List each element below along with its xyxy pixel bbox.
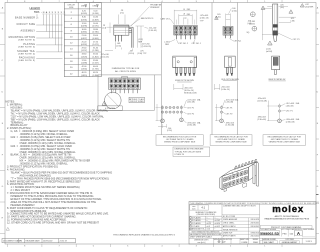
svg-text:.400±.004: .400±.004: [184, 87, 192, 89]
svg-text:(1.55): (1.55): [116, 46, 121, 48]
svg-text:.0000050 (0.127µ) MIN. SELECT: .0000050 (0.127µ) MIN. SELECT MATTE TIN: [20, 148, 71, 151]
svg-text:.100: .100: [232, 8, 236, 10]
svg-text:3. PRODUCT SPECIFICATION: PS-5: 3. PRODUCT SPECIFICATION: PS-5566-001: [7, 166, 59, 169]
svg-text:5566002-SD: 5566002-SD: [260, 232, 280, 236]
disclaimer strip: [189, 203, 316, 205]
svg-text:(.64): (.64): [248, 23, 252, 25]
svg-text:(11.94±.08): (11.94±.08): [257, 100, 267, 102]
svg-text:.017±.003: .017±.003: [286, 103, 294, 105]
svg-text:(2.54): (2.54): [232, 10, 237, 12]
svg-text:AREA OF THE PIN AND WILL NOT A: AREA OF THE PIN AND WILL NOT AFFECT THE …: [11, 201, 97, 204]
detail front view: [109, 78, 141, 89]
svg-text:BLANK, S, MX = .0000060 (0.1: BLANK, S, MX = .0000060 (0.152µ) MIN. MA…: [11, 154, 72, 157]
svg-text:.079±.005: .079±.005: [200, 15, 208, 17]
svg-text:2 = PEG MOUNT: 2 = PEG MOUNT: [11, 189, 31, 192]
product customer drawing bar: [260, 226, 312, 229]
svg-text:SPECIFICATION PS-45499-002: SPECIFICATION PS-45499-002: [11, 210, 47, 213]
svg-text:6. MOUNTING OPTION:: 6. MOUNTING OPTION:: [7, 183, 35, 186]
svg-text:TERMINAL:: TERMINAL:: [11, 121, 25, 124]
svg-text:48.20: 48.20: [93, 72, 98, 74]
hole layout left connect lines: [162, 105, 164, 123]
svg-text:2019/02/22: 2019/02/22: [43, 241, 52, 243]
svg-text:BASE NUMBER: BASE NUMBER: [15, 16, 35, 19]
svg-text:44.00: 44.00: [93, 66, 98, 68]
detail pins below: [111, 89, 113, 93]
svg-text:P1: P1: [20, 241, 22, 243]
svg-text:(2.36±.08): (2.36±.08): [257, 119, 266, 121]
svg-text:(2.36±.08): (2.36±.08): [286, 121, 295, 123]
circuit size table: [64, 3, 101, 77]
svg-text:.437: .437: [129, 50, 133, 52]
svg-text:MX = .0000060 (0.152µ) MIN.: MX = .0000060 (0.152µ) MIN. REFLOWED MAT…: [20, 160, 91, 163]
svg-text:(.64): (.64): [280, 7, 284, 9]
title block frame: [189, 202, 316, 245]
pin section circles: [250, 12, 255, 17]
svg-text:2. FINISH (PLATING):: 2. FINISH (PLATING):: [7, 127, 32, 130]
svg-text:CKT. P1: CKT. P1: [187, 107, 194, 109]
svg-text:"BLANK" = NYLON (PA66), LOW HA: "BLANK" = NYLON (PA66), LOW HALOGEN, UNF…: [11, 109, 109, 112]
svg-text:CKT. P2: CKT. P2: [187, 113, 194, 115]
svg-text:CKT. N-1: CKT. N-1: [234, 41, 242, 43]
svg-text:4. PACKAGING:: 4. PACKAGING:: [7, 168, 25, 171]
document status strip: [2, 239, 76, 243]
svg-text:8 THRU 24: 8 THRU 24: [175, 154, 184, 156]
legend droplines: [36, 14, 38, 18]
caption box 1: [156, 135, 203, 146]
svg-text:CKT. P1: CKT. P1: [293, 39, 300, 41]
svg-text:11. FORMING MARKS ON PINS ARE: 11. FORMING MARKS ON PINS ARE ACCEPTABLE…: [7, 219, 67, 222]
iso feet: [243, 183, 247, 188]
detail flag triangle: [102, 101, 107, 105]
top view odd dim below: [214, 84, 216, 90]
svg-text:21.00: 21.00: [82, 35, 87, 37]
svg-text:10. PARTS ARE NOT DESIGNED FOR: 10. PARTS ARE NOT DESIGNED FOR CURRENT S…: [7, 216, 77, 219]
svg-text:(10.16±.10): (10.16±.10): [184, 90, 194, 92]
svg-text:2019/01/28: 2019/01/28: [251, 219, 260, 221]
svg-text:.075: .075: [140, 50, 144, 52]
iso front holes: [224, 170, 248, 188]
svg-text:3: 3: [269, 44, 270, 46]
pin detail left dim: [262, 8, 264, 40]
zone ticks top/bottom: [7, 0, 9, 3]
svg-text:31.40: 31.40: [93, 48, 98, 50]
svg-text:(5.08±.10): (5.08±.10): [221, 89, 230, 91]
svg-text:CHK'D: JWELL: CHK'D: JWELL: [223, 223, 235, 225]
svg-text:1 = SCREW MOUNT (SEE SD-5566-N: 1 = SCREW MOUNT (SEE SD-5566-NA* SERIES …: [11, 186, 80, 189]
svg-text:PSD: PSD: [283, 233, 288, 235]
svg-text:PLATING: PLATING: [23, 43, 35, 46]
svg-text:(.165): (.165): [165, 41, 170, 43]
svg-text:VIEWED FROM COMPONENT SIDE: VIEWED FROM COMPONENT SIDE: [215, 142, 247, 144]
svg-text:REF: REF: [187, 14, 190, 16]
zone ticks left/right: [0, 12, 5, 14]
svg-text:.025: .025: [248, 21, 252, 23]
front view odd dims: [225, 14, 227, 27]
svg-text:HOUSING:: HOUSING:: [11, 107, 24, 110]
svg-text:21:31:19: 21:31:19: [60, 241, 67, 243]
svg-text:25.20: 25.20: [82, 41, 87, 43]
svg-text:2010/12/22: 2010/12/22: [251, 236, 260, 238]
detail panel box: [98, 74, 161, 76]
svg-text:PRESENT: PRESENT: [150, 7, 160, 9]
note 12 flag: [6, 227, 9, 230]
svg-text:CKT. NO. 2: CKT. NO. 2: [179, 43, 189, 45]
svg-text:14.60: 14.60: [93, 23, 98, 25]
svg-text:PACKAGING: PACKAGING: [19, 56, 35, 59]
svg-text:G04 = .0000030 (0.076µ) MIN.: G04 = .0000030 (0.076µ) MIN. SELECT GOLD…: [11, 145, 73, 148]
svg-text:(.38): (.38): [291, 20, 295, 22]
svg-text:inch: inch: [192, 208, 195, 210]
svg-text:.28: .28: [120, 10, 123, 12]
svg-text:(2.00±.13): (2.00±.13): [200, 18, 209, 20]
top view odd: [225, 56, 236, 67]
svg-text:.217±.010: .217±.010: [100, 54, 108, 56]
side view bottom pins: [115, 35, 117, 41]
svg-text:8.40: 8.40: [82, 17, 86, 19]
svg-text:.112-.002: .112-.002: [149, 28, 157, 30]
svg-text:(2.54): (2.54): [167, 130, 172, 132]
svg-text:(UNLESS SPECIFIED): (UNLESS SPECIFIED): [197, 214, 216, 216]
top view odd pins: [226, 68, 228, 74]
side view connector body: [114, 25, 129, 35]
svg-text:35.60: 35.60: [93, 54, 98, 56]
svg-text:BRASS ALLOY: BRASS ALLOY: [11, 124, 28, 127]
svg-text:.0000050 (0.127µ) MIN. NICKEL: .0000050 (0.127µ) MIN. NICKEL OVERALL: [20, 133, 69, 136]
svg-text:EFFECT OF THE CARRIER. THIS DI: EFFECT OF THE CARRIER. THIS DISCOLORATIO…: [11, 198, 103, 201]
svg-text:10.40: 10.40: [93, 17, 98, 19]
svg-text:9. CONNECTORS ARE NOT TO BE MA: 9. CONNECTORS ARE NOT TO BE MATED AND UN…: [7, 213, 109, 216]
hole layout middle: [220, 106, 222, 108]
svg-text:42.00: 42.00: [82, 66, 87, 68]
iso pin comb: [234, 159, 258, 186]
pin front view lower: [272, 56, 280, 70]
svg-text:SIZE: SIZE: [69, 7, 74, 9]
svg-text:(1.3): (1.3): [102, 28, 106, 30]
svg-text:(SEE NOTE 5): (SEE NOTE 5): [18, 46, 35, 48]
svg-text:OVER .0000050 (0.127µ) MIN. NI: OVER .0000050 (0.127µ) MIN. NICKEL OVERA…: [20, 142, 77, 145]
svg-text:1. MATERIAL:: 1. MATERIAL:: [7, 104, 23, 107]
svg-text:(.30) REF.: (.30) REF.: [305, 7, 314, 9]
svg-text:3: 3: [216, 18, 217, 20]
flag triangle near odd view: [215, 16, 219, 19]
svg-text:.100: .100: [168, 128, 172, 130]
svg-text:"210" = NYLON (PA66), LOW HALO: "210" = NYLON (PA66), LOW HALOGEN, UNFIL…: [11, 115, 105, 118]
svg-text:.015: .015: [291, 18, 295, 20]
svg-text:OVER .0000050 (0.127µ) MIN. NI: OVER .0000050 (0.127µ) MIN. NICKEL OVERA…: [20, 151, 77, 154]
svg-text:(5.51/6.35): (5.51/6.35): [142, 46, 152, 48]
svg-text:.165: .165: [217, 14, 221, 16]
svg-text:SQ.: SQ.: [247, 32, 251, 34]
svg-text:(1.819): (1.819): [81, 75, 87, 77]
svg-text:"NL" = NYLON (PA66), LOW HALOG: "NL" = NYLON (PA66), LOW HALOGEN, UNFILL…: [11, 112, 101, 115]
iso latch: [233, 171, 238, 175]
svg-text:CKT. P1: CKT. P1: [286, 110, 293, 112]
svg-text:(SEE NOTE 9): (SEE NOTE 9): [18, 60, 35, 62]
svg-text:18.80: 18.80: [93, 29, 98, 31]
svg-text:CURRENT REV DESC: MODIFY TO EC: CURRENT REV DESC: MODIFY TO ECTR: [223, 206, 256, 208]
front view odd pins: [225, 35, 227, 38]
svg-text:23.00: 23.00: [93, 35, 98, 37]
svg-text:12.60: 12.60: [82, 23, 87, 25]
middle rev column: [259, 204, 261, 244]
front view even pins below: [175, 35, 177, 39]
pin detail right dims: [279, 16, 296, 18]
svg-text:VIEWED FROM COMPONENT SIDE: VIEWED FROM COMPONENT SIDE: [164, 142, 196, 144]
caption box 3: [263, 135, 306, 146]
svg-text:INHERENT TO THE PLATING PROCES: INHERENT TO THE PLATING PROCESS AND IS D…: [11, 195, 94, 198]
top view even: [173, 56, 197, 67]
svg-text:4.20: 4.20: [82, 11, 86, 13]
hole layout left pegs: [161, 119, 165, 123]
svg-text:CIRCUIT: CIRCUIT: [67, 4, 76, 6]
svg-text:(5.51±.25): (5.51±.25): [100, 56, 109, 58]
svg-text:.017±.003: .017±.003: [226, 99, 234, 101]
svg-text:.025: .025: [280, 4, 284, 6]
svg-text:46.20: 46.20: [82, 72, 87, 74]
svg-text:29.40: 29.40: [82, 48, 87, 50]
svg-text:DIM: DIM: [81, 5, 85, 7]
svg-text:.0000050 (0.127µ) MIN. SELECT: .0000050 (0.127µ) MIN. SELECT MATTE TIN: [20, 139, 71, 142]
pin detail lower flag: [268, 41, 273, 45]
detail circle: [105, 92, 122, 109]
svg-text:.012: .012: [305, 4, 309, 6]
svg-text:(SEE NOTE 6): (SEE NOTE 6): [18, 40, 35, 42]
svg-text:5: 5: [290, 12, 291, 14]
svg-text:(.43±.08): (.43±.08): [187, 102, 195, 104]
pin detail body: [273, 4, 278, 35]
svg-text:VIEWED FROM COMPONENT SIDE: VIEWED FROM COMPONENT SIDE: [269, 142, 301, 144]
svg-text:.0000050 (0.127µ) MIN. NICKEL: .0000050 (0.127µ) MIN. NICKEL OVERALL: [20, 163, 69, 166]
isometric connector view: [220, 162, 257, 190]
front view odd circuits: [223, 26, 233, 35]
svg-text:39.80: 39.80: [93, 60, 98, 62]
svg-text:.093±.003: .093±.003: [257, 117, 265, 119]
svg-text:CKT. P2: CKT. P2: [226, 113, 233, 115]
svg-text:.093±.003: .093±.003: [286, 119, 294, 121]
svg-text:(SEE NOTE 4): (SEE NOTE 4): [18, 53, 35, 55]
svg-text:CIRCUIT SIZES: CIRCUIT SIZES: [130, 101, 144, 103]
svg-text:SEE NOTE 11: SEE NOTE 11: [141, 18, 155, 20]
svg-text:(1.90) TYP: (1.90) TYP: [137, 53, 147, 55]
pin detail flags top: [261, 6, 265, 9]
svg-text:NOTES:: NOTES:: [6, 101, 16, 104]
svg-text:1 OF 3: 1 OF 3: [306, 241, 313, 243]
svg-text:HEADER ASSEMBLY.: HEADER ASSEMBLY.: [11, 204, 36, 207]
svg-text:G, GS = .0000015 (0.038µ) MI: G, GS = .0000015 (0.038µ) MIN. SELECT GO…: [11, 130, 75, 133]
right edge zone mark: [316, 194, 319, 196]
svg-text:12. OTHER CORE-CUTS ARE OPTION: 12. OTHER CORE-CUTS ARE OPTIONAL AND MAY…: [7, 222, 99, 225]
svg-text:.217/.250: .217/.250: [142, 44, 150, 46]
svg-text:SOLDER TAIL: SOLDER TAIL: [17, 50, 35, 53]
svg-text:DIM: DIM: [93, 5, 97, 7]
side view bent pins: [129, 26, 133, 28]
svg-text:5566: 5566: [34, 11, 40, 14]
svg-text:"T" = TRAY PACKED PER PK-5566-: "T" = TRAY PACKED PER PK-5566-005 (RECOM…: [11, 177, 109, 180]
svg-text:molex: molex: [272, 204, 304, 215]
svg-text:"BLANK" = BULK PACKED PER PK-5: "BLANK" = BULK PACKED PER PK-5566-002 (N…: [11, 171, 113, 174]
svg-text:5566: 5566: [253, 242, 258, 244]
svg-text:OVER .0000050 (0.127µ) MIN. NI: OVER .0000050 (0.127µ) MIN. NICKEL OVERA…: [20, 157, 77, 160]
svg-text:MOUNTING OPTION: MOUNTING OPTION: [9, 36, 36, 39]
svg-text:(.43±.08): (.43±.08): [286, 105, 294, 107]
svg-text:mm [inch]: mm [inch]: [197, 242, 205, 244]
pin detail top dim line: [267, 6, 272, 8]
svg-text:2019/02/02: 2019/02/02: [251, 226, 260, 228]
svg-text:27.20: 27.20: [93, 41, 98, 43]
svg-text:CIRCUIT SIZE: CIRCUIT SIZE: [17, 23, 36, 26]
svg-text:(2.36±.08): (2.36±.08): [226, 125, 235, 127]
hole layout right: [278, 105, 280, 107]
tolerance column: [221, 204, 223, 244]
front view even dims above: [173, 10, 175, 25]
top view even dim below: [173, 84, 175, 90]
svg-text:(11.10): (11.10): [128, 53, 134, 55]
svg-text:(2.36±.08): (2.36±.08): [187, 125, 196, 127]
svg-text:ASSEMBLY: ASSEMBLY: [20, 30, 35, 33]
svg-text:(.43±.08): (.43±.08): [226, 102, 234, 104]
applies to all box: [129, 97, 144, 103]
svg-text:.470±.003: .470±.003: [257, 98, 265, 100]
svg-text:.017±.003: .017±.003: [187, 99, 195, 101]
svg-text:(.222): (.222): [138, 39, 143, 41]
svg-text:.093±.003: .093±.003: [226, 122, 234, 124]
caption box 2: [210, 135, 252, 146]
svg-text:CKT. P1: CKT. P1: [226, 107, 233, 109]
svg-text:G02 = .0000020 (0.05µ) MIN.: G02 = .0000020 (0.05µ) MIN. SELECT GOLD …: [11, 136, 71, 139]
svg-text:33.60: 33.60: [82, 54, 87, 56]
hole layout left grid: [161, 106, 163, 108]
svg-text:8. PART CONFORMS TO CLASS "B": 8. PART CONFORMS TO CLASS "B" REQUIREMEN…: [7, 207, 88, 210]
svg-text:7. DISCOLORATION IN THE SANDOL: 7. DISCOLORATION IN THE SANDOLDER CARRIE…: [7, 192, 93, 195]
svg-text:(2.84-.05): (2.84-.05): [149, 30, 158, 32]
svg-text:.093±.003: .093±.003: [187, 122, 195, 124]
svg-text:5. PART MATED WITH MINI-FIT JR: 5. PART MATED WITH MINI-FIT JR. RECEPTAC…: [7, 180, 81, 183]
svg-text:AND HANDLING DAMAGE): AND HANDLING DAMAGE): [20, 174, 51, 177]
svg-text:mm: mm: [192, 206, 196, 208]
caption box 4: [173, 147, 210, 157]
svg-text:37.80: 37.80: [82, 60, 87, 62]
svg-text:REF: REF: [187, 9, 190, 11]
top view even pins: [176, 68, 178, 74]
svg-text:16.80: 16.80: [82, 29, 87, 31]
bottom band row: [189, 237, 316, 239]
svg-text:(7.2): (7.2): [120, 13, 124, 15]
svg-text:.061: .061: [117, 43, 121, 45]
svg-text:2019/02/02: 2019/02/02: [251, 223, 260, 225]
front view even circuits: [174, 25, 197, 35]
svg-text:6.20: 6.20: [94, 11, 98, 13]
svg-text:4: 4: [302, 6, 303, 8]
svg-text:C-SIZE: C-SIZE: [241, 242, 248, 244]
svg-text:"BB" = NYLON (PA66), LOW HALOG: "BB" = NYLON (PA66), LOW HALOGEN, UNFILL…: [11, 118, 101, 121]
panel divider lines: [160, 3, 162, 135]
4 places box: [98, 106, 123, 111]
svg-text:.200±.004: .200±.004: [221, 87, 229, 89]
